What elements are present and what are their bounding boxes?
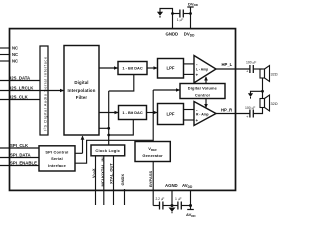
svg-text:GNDX: GNDX	[120, 174, 125, 186]
svg-text:XTAL_OUT: XTAL_OUT	[108, 163, 113, 184]
svg-text:VREF: VREF	[148, 146, 157, 152]
svg-text:+: +	[196, 72, 199, 77]
svg-text:Digital Volume: Digital Volume	[188, 85, 218, 90]
svg-text:+: +	[246, 114, 249, 119]
svg-text:NC: NC	[12, 59, 18, 64]
svg-text:DVDD: DVDD	[188, 1, 199, 7]
svg-text:SPI_CLK: SPI_CLK	[10, 143, 29, 148]
svg-text:AVDD: AVDD	[182, 183, 193, 189]
svg-text:I2S_DATA: I2S_DATA	[10, 75, 30, 80]
svg-text:I²S Digital Audio Serial Inter: I²S Digital Audio Serial Interface	[43, 56, 47, 131]
svg-text:-: -	[196, 62, 198, 67]
svg-text:32Ω: 32Ω	[271, 73, 278, 77]
svg-text:R - Amp: R - Amp	[196, 112, 209, 116]
svg-text:NC: NC	[12, 46, 18, 51]
svg-text:+: +	[196, 118, 199, 123]
svg-text:Interpolation: Interpolation	[68, 88, 96, 93]
svg-text:Control: Control	[195, 93, 210, 98]
svg-text:AVDD: AVDD	[186, 212, 196, 218]
svg-text:LPF: LPF	[167, 112, 175, 117]
svg-text:2.2 µF: 2.2 µF	[156, 197, 165, 201]
svg-text:GNDD: GNDD	[166, 32, 179, 37]
svg-text:100 µF: 100 µF	[245, 106, 255, 110]
svg-text:DVDD: DVDD	[184, 32, 195, 38]
svg-text:SPI_ENABLE: SPI_ENABLE	[10, 160, 37, 165]
svg-text:100 µF: 100 µF	[246, 61, 256, 65]
svg-text:Interface: Interface	[48, 163, 66, 168]
svg-text:I2S_CLK: I2S_CLK	[10, 94, 29, 99]
svg-text:SPI_DATA: SPI_DATA	[10, 152, 31, 157]
svg-text:Clock Logic: Clock Logic	[95, 148, 120, 153]
svg-text:NC: NC	[12, 52, 18, 57]
svg-text:32Ω: 32Ω	[271, 102, 278, 106]
svg-text:I2S_LRCLK: I2S_LRCLK	[10, 85, 34, 90]
svg-text:VDDX: VDDX	[91, 168, 97, 178]
svg-text:HP_R: HP_R	[221, 108, 232, 113]
svg-text:MCLK/XTAL_IN: MCLK/XTAL_IN	[100, 157, 105, 186]
svg-text:L - Amp: L - Amp	[196, 68, 208, 72]
svg-text:SPI Control: SPI Control	[45, 149, 68, 154]
svg-text:AGND: AGND	[165, 183, 178, 188]
svg-text:HP_L: HP_L	[222, 62, 233, 67]
svg-text:BYPASS: BYPASS	[148, 171, 153, 187]
svg-text:Generator: Generator	[142, 153, 163, 158]
svg-text:Digital: Digital	[74, 80, 88, 85]
svg-text:1 µF: 1 µF	[175, 197, 182, 201]
svg-text:1 - Bit DAC: 1 - Bit DAC	[122, 110, 143, 115]
svg-text:1 - Bit DAC: 1 - Bit DAC	[122, 65, 143, 70]
svg-text:1 µF: 1 µF	[177, 18, 184, 22]
svg-text:Filter: Filter	[76, 95, 88, 100]
svg-text:Serial: Serial	[51, 156, 63, 161]
svg-text:LPF: LPF	[167, 66, 175, 71]
